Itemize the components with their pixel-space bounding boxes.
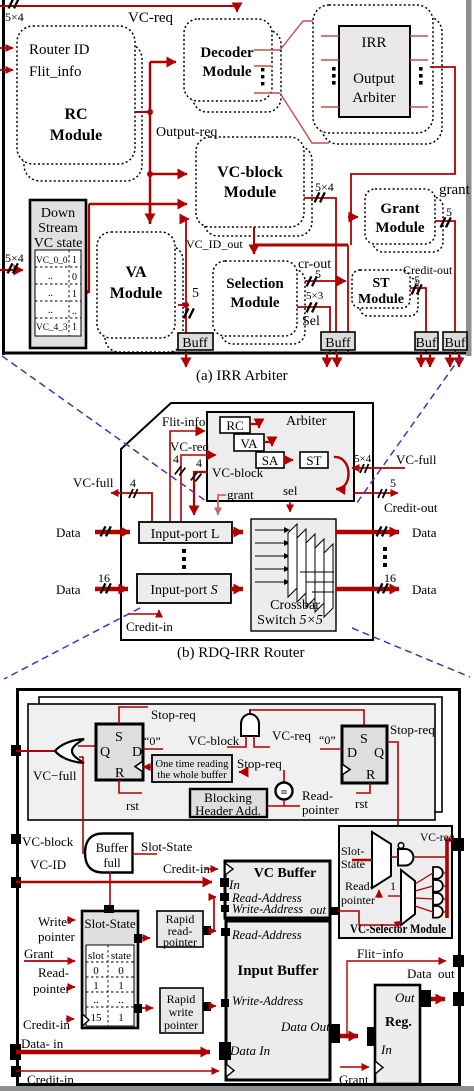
wire Credit-in to VC Buffer clock <box>205 868 218 870</box>
wire bus arrow down into VA Module top <box>149 204 152 223</box>
wire Flit-info to right edge port <box>347 961 446 1035</box>
svg-text:VC-req: VC-req <box>272 728 311 743</box>
svg-text:VC-req: VC-req <box>420 832 455 844</box>
bus width hash 5x4 top-left <box>9 0 19 8</box>
svg-text:16: 16 <box>98 571 110 585</box>
wire sel down into crossbar <box>289 501 291 512</box>
bus width hash on VC-full wire <box>360 464 369 473</box>
svg-text:5×4: 5×4 <box>5 251 24 265</box>
svg-text:5×4: 5×4 <box>315 180 334 194</box>
svg-text:Input Buffer: Input Buffer <box>237 963 319 979</box>
svg-text:5: 5 <box>446 205 452 219</box>
wire cr-out into ST Module <box>297 280 346 282</box>
ellipsis dots right of IRR <box>419 67 423 85</box>
Decoder Module <box>184 19 272 101</box>
IRR Output Arbiter dashed box <box>313 5 433 133</box>
SR latch U2 left <box>96 724 143 781</box>
IRR left input stub 2 <box>321 59 339 61</box>
svg-text:..: .. <box>48 271 53 282</box>
svg-text:..: .. <box>93 994 99 1006</box>
svg-text:Credit-in: Credit-in <box>163 861 210 876</box>
wire arrow down into Selection Module <box>253 245 255 254</box>
wire Decoder to IRR diagonal down <box>280 93 329 143</box>
VC-block Module <box>196 137 304 227</box>
wire arrows below Buf3 <box>421 353 430 367</box>
svg-text:..: .. <box>118 994 124 1006</box>
svg-text:VC-req: VC-req <box>128 10 173 26</box>
wire comparator bottom connections <box>267 800 300 806</box>
wire grant bus from IRR down right side <box>351 67 455 245</box>
label Read-pointer <box>302 788 339 817</box>
bus width hash Data out bottom <box>378 583 388 593</box>
svg-text:Output: Output <box>353 71 396 87</box>
wire Data-in thick bus <box>16 1050 210 1055</box>
svg-text:Module: Module <box>110 285 162 302</box>
svg-text:Grant: Grant <box>24 946 54 961</box>
port Data-in left edge <box>10 1044 21 1060</box>
wire Credit-in up into S <box>128 610 159 614</box>
wire VC-req into Arbiter <box>181 455 216 523</box>
label Read-pointer mux <box>341 879 375 907</box>
svg-text:Sel: Sel <box>302 314 320 329</box>
RC block <box>220 417 250 433</box>
Rapid write pointer box <box>160 988 203 1033</box>
wire Sel output to Buff2 <box>297 307 330 353</box>
wire NAND output to red bus <box>413 856 446 858</box>
port VC Buffer out <box>329 907 338 915</box>
svg-text:R: R <box>115 766 125 781</box>
svg-text:Router ID: Router ID <box>29 42 90 58</box>
svg-text:Q: Q <box>374 746 384 761</box>
port Slot-State table right upper <box>134 934 142 943</box>
svg-text:Arbiter: Arbiter <box>286 414 327 429</box>
svg-text:S: S <box>115 730 123 745</box>
wire branch down to VA left input <box>89 204 90 292</box>
svg-text:Read-Address: Read-Address <box>231 928 302 942</box>
svg-text:Selection: Selection <box>226 276 284 292</box>
svg-text:Flit−info: Flit−info <box>357 946 403 961</box>
bus width hash Data L <box>101 526 111 536</box>
mux M1 <box>372 832 391 888</box>
svg-text:Module: Module <box>358 292 404 307</box>
svg-text:Decoder: Decoder <box>200 45 254 61</box>
svg-text:pointer: pointer <box>33 981 70 996</box>
page bottom gray strip <box>0 1086 474 1091</box>
svg-text:write: write <box>169 1005 194 1019</box>
input-port detail outer box <box>18 690 460 1085</box>
wire Output-req vertical bus from RC <box>147 62 153 224</box>
svg-text:(b) RDQ-IRR Router: (b) RDQ-IRR Router <box>177 645 305 661</box>
IRR Arbiter outer frame left edge <box>2 0 5 355</box>
svg-text:Slot-: Slot- <box>341 844 364 858</box>
svg-text:5×3: 5×3 <box>306 290 324 302</box>
bus width hash on VC-block output <box>315 192 325 202</box>
wire crossbar Data output bottom <box>336 587 399 592</box>
Buf 4 <box>443 332 467 351</box>
SR latch U3 right <box>342 726 387 783</box>
port Flit-info right edge <box>453 955 464 967</box>
port VC Buffer In <box>220 878 229 887</box>
wire table to Rapid read-pointer <box>142 937 150 939</box>
Selection Module shadow <box>221 269 305 344</box>
svg-text:Credit-in: Credit-in <box>126 619 173 634</box>
wire 5x4 arrow into table <box>0 269 23 271</box>
svg-text:Stop-req: Stop-req <box>237 756 282 771</box>
svg-text:R: R <box>366 768 376 783</box>
svg-text:5×4: 5×4 <box>5 10 24 24</box>
svg-text:Data: Data <box>56 582 81 597</box>
wire read-pointer chain to Read-Address ports <box>211 897 216 931</box>
Slot-State table <box>82 911 138 1028</box>
svg-text:1: 1 <box>72 255 77 266</box>
wire Data input arrow into L <box>95 530 130 535</box>
bus width hash Data out top <box>377 526 387 536</box>
wire arrow below Buff1 <box>185 353 187 367</box>
svg-text:rst: rst <box>355 796 368 811</box>
port Slot-State table right lower <box>134 1004 142 1013</box>
VA Module shadow <box>105 246 183 352</box>
bus width hash on VC-block vertical <box>191 472 202 483</box>
svg-text:4: 4 <box>173 452 179 466</box>
svg-text:Out: Out <box>395 990 415 1005</box>
wire VC-block from Arbiter down to Input-port L <box>194 472 207 515</box>
wire VC-full output to the left <box>111 493 152 523</box>
wire Buffer full output Slot-State stub <box>132 853 157 855</box>
wire latch Q to OR input <box>78 745 96 747</box>
svg-text:=: = <box>281 785 288 799</box>
svg-text:D: D <box>132 745 142 760</box>
IRR right output stub 3 <box>410 106 428 108</box>
svg-text:RC: RC <box>64 106 87 123</box>
wire vertical bus to Grant and ST <box>348 214 354 353</box>
D buffer 1 <box>433 867 443 879</box>
svg-text:Buff: Buff <box>182 336 208 351</box>
wire Grant arrow into table <box>24 960 75 962</box>
wire R to rst <box>119 780 142 793</box>
IRR Output Arbiter shadow <box>322 16 442 144</box>
svg-text:sel: sel <box>283 483 298 498</box>
Crossbar Switch box <box>251 519 336 631</box>
svg-text:..: .. <box>48 288 53 299</box>
D buffer 3 <box>433 893 443 905</box>
wire bus to VC-block arrow 1 <box>150 173 187 176</box>
svg-text:VC-full: VC-full <box>396 452 437 467</box>
wire Write-pointer arrow <box>67 919 75 921</box>
Grant Module <box>365 189 435 244</box>
comparator = circle <box>276 770 293 800</box>
port Reg Out <box>420 990 431 1007</box>
SA block <box>256 452 284 468</box>
svg-text:Slot-State: Slot-State <box>141 839 193 854</box>
port Reg In <box>367 1027 375 1046</box>
wire arrow into Grant Module <box>351 216 358 218</box>
svg-text:VC-block: VC-block <box>22 834 74 849</box>
stop-req panel shadow <box>39 697 442 812</box>
IRR left input stub 3 <box>321 106 339 108</box>
wire AND output long line to right latch S <box>250 710 364 726</box>
svg-text:grant: grant <box>227 487 254 502</box>
svg-text:Read-: Read- <box>38 965 69 980</box>
VC-Selector Module box <box>339 826 452 938</box>
wire Flit-info into Arbiter <box>170 431 205 523</box>
svg-text:5×4: 5×4 <box>354 453 372 465</box>
IRR left input stub 1 <box>321 35 339 37</box>
wires D buffers to bus <box>443 873 447 912</box>
wire Reg Out thick to right edge <box>431 997 445 1002</box>
svg-text:Credit-out: Credit-out <box>384 500 438 515</box>
bus width hash Data S <box>101 583 111 593</box>
D buffer 4 <box>433 906 443 918</box>
wire mux M1 to NAND <box>391 856 398 858</box>
wire Grant to Reg clock <box>340 1066 369 1068</box>
svg-text:..: .. <box>48 305 53 316</box>
wire S input stub with Stop-req label <box>119 707 148 724</box>
svg-text:Stop-req: Stop-req <box>390 722 435 737</box>
svg-text:(a) IRR Arbiter: (a) IRR Arbiter <box>196 368 288 384</box>
svg-text:Flit_info: Flit_info <box>29 64 82 80</box>
wire VC Buffer out to mux M2 bottom <box>338 911 402 925</box>
svg-text:Buffer: Buffer <box>96 841 129 855</box>
svg-text:full: full <box>103 856 121 870</box>
svg-text:1: 1 <box>93 980 99 992</box>
bus width hash on 5x4 table wire <box>8 263 18 273</box>
wire arrows below Buf4 <box>450 353 459 367</box>
svg-text:VC-block: VC-block <box>217 164 283 181</box>
svg-text:ST: ST <box>306 453 321 468</box>
Input-port S <box>137 574 231 603</box>
RC Module <box>17 26 135 164</box>
port VC-full on left edge <box>11 745 21 756</box>
Decoder Module shadow <box>193 30 281 112</box>
wire SA to ST <box>284 459 293 461</box>
svg-text:1: 1 <box>390 879 396 893</box>
svg-text:5: 5 <box>390 476 396 490</box>
wire bus to Decoder arrow <box>150 61 176 64</box>
svg-text:VC-block: VC-block <box>188 733 240 748</box>
bus width hash on cr-out <box>307 276 317 286</box>
wire Slot-State into mux M1 <box>352 859 372 862</box>
ellipsis dots right outputs <box>383 547 387 567</box>
svg-text:VA: VA <box>240 436 258 451</box>
svg-text:In: In <box>380 1042 392 1057</box>
svg-text:Flit-info: Flit-info <box>162 414 205 429</box>
svg-text:VC_0_0: VC_0_0 <box>36 256 68 266</box>
svg-text:Stream: Stream <box>38 221 78 236</box>
label Read-pointer left <box>33 965 70 996</box>
svg-text:“0”: “0” <box>319 733 336 747</box>
VA Module <box>97 232 175 338</box>
Input Buffer <box>226 921 330 1080</box>
AND gate G2 <box>241 709 259 736</box>
svg-text:Buf: Buf <box>445 336 466 351</box>
svg-text:4: 4 <box>196 456 202 470</box>
wire Flit_info input arrow <box>0 69 13 71</box>
svg-text:Input-port S: Input-port S <box>150 583 217 598</box>
ellipsis dots left of IRR <box>332 67 336 85</box>
svg-text:Grant: Grant <box>380 201 419 217</box>
wire VC-full from OR gate to port <box>16 750 56 752</box>
svg-text:VC-full: VC-full <box>73 475 114 490</box>
svg-text:Input-port L: Input-port L <box>151 527 220 542</box>
svg-text:Reg.: Reg. <box>385 1015 412 1030</box>
wire R to rst right <box>356 783 370 793</box>
wire RC to VA <box>250 424 259 428</box>
svg-text:“0”: “0” <box>144 734 161 748</box>
svg-text:state: state <box>111 950 131 962</box>
zoom line purple top-right <box>356 356 461 504</box>
wire VC_ID_out thick bus <box>254 227 348 245</box>
port Rapid write pointer out <box>203 1002 211 1011</box>
wire arrows below Buff2 <box>327 353 337 367</box>
svg-text:the whole buffer: the whole buffer <box>157 770 227 781</box>
RDQ-IRR Router outline polygon <box>121 403 373 640</box>
wire Decoder output stub 3 <box>254 92 280 94</box>
wire VC-block right output 5x4 <box>304 198 336 353</box>
svg-text:Data- in: Data- in <box>21 1036 64 1051</box>
svg-text:Grant: Grant <box>339 1072 369 1087</box>
page column gray strip right <box>466 0 472 356</box>
svg-text:Credit-in: Credit-in <box>27 1072 74 1087</box>
stop-req panel <box>28 704 435 820</box>
svg-text:Module: Module <box>202 64 252 80</box>
Buff 2 <box>321 332 355 351</box>
svg-text:out: out <box>310 903 327 917</box>
wire Decoder to IRR diagonal up <box>280 21 314 50</box>
wire OR input 2 down to Buffer full <box>79 757 86 853</box>
port Input Buffer Data Out <box>329 1024 340 1043</box>
svg-text:Data: Data <box>412 582 437 597</box>
wire crossbar Data output top <box>336 530 399 535</box>
wire VA to SA <box>264 442 272 446</box>
svg-text:Credit-out: Credit-out <box>403 263 453 277</box>
svg-text:Module: Module <box>50 127 102 144</box>
IRR Output Arbiter U1 <box>339 26 410 117</box>
Selection Module <box>213 261 297 336</box>
svg-text:Rapid: Rapid <box>167 992 196 1006</box>
svg-text:VC state: VC state <box>34 236 83 251</box>
svg-text:Header Add.: Header Add. <box>195 803 261 818</box>
Buf 3 <box>415 332 438 351</box>
wire ST Credit-out output to Buf3 <box>410 288 426 352</box>
svg-text:pointer: pointer <box>302 802 339 817</box>
svg-text:VC-ID: VC-ID <box>30 857 66 872</box>
port Credit-in left edge <box>11 1066 21 1077</box>
svg-text:1: 1 <box>72 289 77 300</box>
svg-text:Module: Module <box>230 295 280 311</box>
port VC-ID on left edge <box>11 877 21 888</box>
ST Module <box>352 270 410 308</box>
svg-text:Slot-State: Slot-State <box>84 916 136 931</box>
wire Grant output 5 joining grant bus <box>435 221 455 353</box>
svg-text:VC_4_3: VC_4_3 <box>36 323 68 333</box>
svg-text:RC: RC <box>226 418 243 433</box>
svg-text:VC_ID_out: VC_ID_out <box>186 237 243 251</box>
svg-text:16: 16 <box>384 571 396 585</box>
wire Decoder output stub 1 <box>254 49 280 51</box>
port VC-block on left edge <box>11 834 21 844</box>
NAND gate G4 <box>398 843 413 866</box>
VC Buffer <box>225 861 330 918</box>
zoom line purple bottom-right <box>352 628 470 677</box>
wire Q down to VC-selector NAND <box>387 742 398 840</box>
svg-text:Read-: Read- <box>345 879 374 893</box>
svg-text:In: In <box>228 877 240 892</box>
svg-text:Arbiter: Arbiter <box>352 90 395 106</box>
wire Data Out thick to Reg In <box>340 1034 358 1039</box>
svg-text:Write-Address: Write-Address <box>232 902 303 916</box>
svg-text:VC Buffer: VC Buffer <box>254 866 317 881</box>
wire Data input arrow into S <box>95 587 128 592</box>
wire Router ID input arrow <box>0 47 13 49</box>
label Write-pointer <box>38 914 75 944</box>
svg-text:slot: slot <box>88 950 104 962</box>
Blocking Header Add box <box>190 789 267 818</box>
svg-text:Read-: Read- <box>302 788 333 803</box>
svg-text:One time reading: One time reading <box>156 759 230 770</box>
wire VC-req top bus with arrow into Decoder Module <box>0 6 237 12</box>
svg-text:15: 15 <box>91 1012 103 1024</box>
IRR right output stub 1 <box>410 35 428 37</box>
svg-text:4: 4 <box>130 476 136 490</box>
svg-text:SA: SA <box>262 453 279 468</box>
mux M2 <box>401 870 415 925</box>
wire D constant 0 stub right latch <box>320 748 342 750</box>
svg-text:ST: ST <box>372 276 390 291</box>
svg-text:Data: Data <box>56 525 81 540</box>
svg-text:Data: Data <box>412 525 437 540</box>
port VC-req right edge <box>453 838 464 851</box>
port Rapid read-pointer out <box>203 926 211 935</box>
ellipsis dots right of Decoder Module <box>261 68 264 85</box>
svg-text:pointer: pointer <box>163 935 197 949</box>
wire Credit-out output <box>354 492 398 494</box>
ellipsis dots between ports <box>182 549 186 569</box>
Arbiter box <box>207 412 354 501</box>
wire VC-full input arrow into Arbiter <box>352 467 405 469</box>
svg-text:D: D <box>347 746 357 761</box>
Grant Module shadow <box>373 197 443 252</box>
wire 1 into mux M2 <box>388 895 401 897</box>
wire bus to VC-block arrow 2 <box>89 203 187 206</box>
svg-text:Data out: Data out <box>407 966 455 981</box>
port Input Buffer Data In <box>219 1042 231 1060</box>
svg-text:1: 1 <box>118 1012 124 1024</box>
wire Stop-req arrow into one-time box <box>239 771 248 773</box>
Reg box <box>375 985 420 1084</box>
zoom line purple bottom-left <box>4 608 140 679</box>
port VC Buffer Read-Address <box>220 893 229 901</box>
D buffer 2 <box>433 880 443 892</box>
svg-text:Buf: Buf <box>416 336 437 351</box>
svg-text:Output-req: Output-req <box>156 125 217 140</box>
port VC Buffer Write-Address <box>221 905 229 912</box>
svg-text:Credit-in: Credit-in <box>23 1017 70 1032</box>
svg-text:VC−full: VC−full <box>33 768 77 783</box>
IRR Arbiter outer frame bottom edge <box>2 352 467 355</box>
svg-text:pointer: pointer <box>164 1018 198 1032</box>
wire Buffer full down to Slot-State table <box>109 872 111 905</box>
wire curved feedback arrow right of ST <box>334 457 349 489</box>
svg-text:grant: grant <box>439 182 471 198</box>
wires mux M2 to D buffers <box>415 873 433 912</box>
svg-text:Q: Q <box>100 745 110 760</box>
wire VC-ID to VC Buffer In <box>16 881 212 883</box>
svg-text:Switch 5×5: Switch 5×5 <box>257 613 323 628</box>
svg-text:Buff: Buff <box>325 336 351 351</box>
wire Read-pointer arrow up into mux M1 <box>378 890 380 898</box>
wire D constant 0 stub <box>143 748 163 750</box>
bus width hash on VA output <box>184 308 194 318</box>
